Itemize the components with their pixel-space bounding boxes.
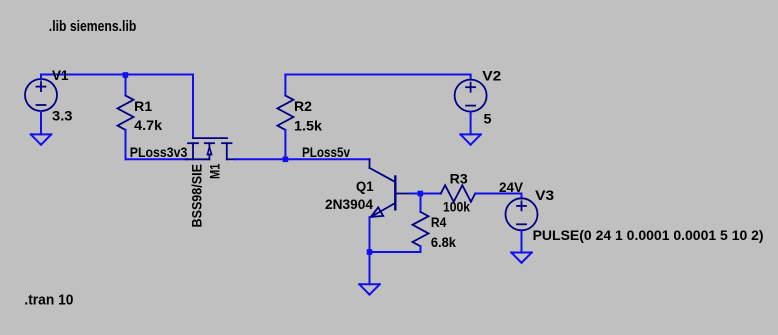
svg-text:PULSE(0 24 1 0.0001 0.0001 5 1: PULSE(0 24 1 0.0001 0.0001 5 10 2) xyxy=(533,228,764,243)
wire Q1 base to junction xyxy=(410,193,420,195)
svg-text:5: 5 xyxy=(484,112,492,127)
wire V3 top stub xyxy=(521,194,523,199)
svg-text:2N3904: 2N3904 xyxy=(325,197,373,212)
resistor R3 xyxy=(420,193,441,195)
svg-text:M1: M1 xyxy=(207,163,222,179)
svg-text:BSS98/SIE: BSS98/SIE xyxy=(190,164,205,228)
ground under V1 xyxy=(31,134,51,144)
mosfet M1 xyxy=(186,138,235,159)
wire M1 drain to Q1 collector (PLoss5v net) xyxy=(235,158,370,160)
svg-text:4.7k: 4.7k xyxy=(134,118,162,133)
svg-text:100k: 100k xyxy=(443,200,470,215)
svg-text:R1: R1 xyxy=(134,99,152,114)
node junction at Q1 base / R3 / R4 xyxy=(418,191,424,197)
wire top rail R2 to V2 xyxy=(285,74,470,76)
voltage source V3 xyxy=(506,198,538,230)
svg-text:PLoss3v3: PLoss3v3 xyxy=(130,145,188,160)
svg-text:Q1: Q1 xyxy=(356,179,374,194)
node junction at R2 bottom xyxy=(283,157,289,163)
svg-text:R2: R2 xyxy=(294,99,312,114)
ground under V2 xyxy=(460,134,480,144)
ground under Q1 emitter xyxy=(359,284,379,294)
svg-text:3.3: 3.3 xyxy=(52,109,73,124)
voltage source V1 xyxy=(25,79,57,111)
voltage source V2 xyxy=(455,80,487,112)
svg-text:V1: V1 xyxy=(52,68,69,83)
wire top rail V1 to M1 gate xyxy=(41,74,193,76)
node junction at V1/R1 xyxy=(123,72,129,78)
svg-text:.lib siemens.lib: .lib siemens.lib xyxy=(49,18,137,35)
wire emitter junction to ground xyxy=(369,252,371,284)
svg-text:V2: V2 xyxy=(482,69,501,84)
wire bottom left rail (PLoss3v3 net) xyxy=(126,158,188,160)
svg-text:PLoss5v: PLoss5v xyxy=(302,145,350,160)
svg-text:V3: V3 xyxy=(535,188,554,203)
svg-text:R4: R4 xyxy=(431,215,447,230)
resistor R2 xyxy=(284,75,286,96)
wire V1 bottom stub xyxy=(40,111,42,134)
node junction at Q1 emitter / R4 / gnd xyxy=(367,249,373,255)
wire Q1 emitter down xyxy=(369,217,371,252)
wire V2 bottom stub xyxy=(470,112,472,135)
wire V3 bottom stub xyxy=(521,230,523,252)
transistor Q1 xyxy=(370,159,411,217)
wire V1 top stub xyxy=(40,75,42,80)
svg-text:.tran 10: .tran 10 xyxy=(24,292,73,309)
svg-text:1.5k: 1.5k xyxy=(294,119,322,134)
wire V2 top stub xyxy=(470,75,472,80)
wire M1 gate drop xyxy=(192,75,194,138)
svg-text:24V: 24V xyxy=(499,180,523,195)
ground under V3 xyxy=(511,253,531,263)
wire emitter junction to R4 bottom xyxy=(370,251,421,253)
svg-text:6.8k: 6.8k xyxy=(431,235,456,250)
resistor R1 xyxy=(125,75,127,96)
svg-text:R3: R3 xyxy=(450,171,468,186)
resistor R4 xyxy=(420,194,422,212)
